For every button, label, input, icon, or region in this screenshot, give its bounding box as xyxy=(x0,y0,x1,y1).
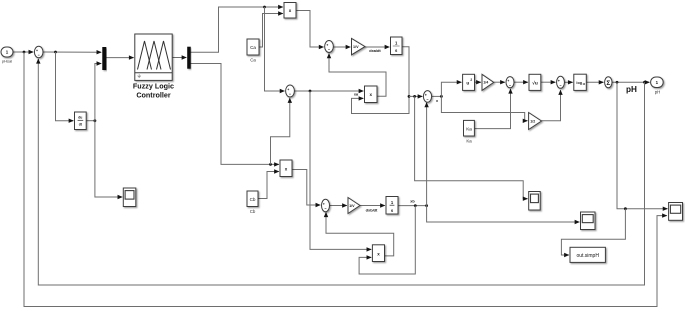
svg-text:Ka: Ka xyxy=(466,127,472,132)
svg-text:u: u xyxy=(466,81,469,86)
svg-text:du: du xyxy=(78,116,82,120)
svg-text:Σ: Σ xyxy=(606,80,610,87)
svg-text:2: 2 xyxy=(470,78,472,82)
svg-text:1/4: 1/4 xyxy=(483,81,488,85)
svg-text:Controller: Controller xyxy=(136,91,171,100)
svg-text:Ca: Ca xyxy=(250,45,256,50)
svg-text:1/2: 1/2 xyxy=(530,119,535,123)
svg-text:1/V: 1/V xyxy=(349,204,355,208)
svg-text:Cb: Cb xyxy=(250,209,256,214)
svg-text:Fuzzy Logic: Fuzzy Logic xyxy=(133,82,174,91)
svg-text:out.simpH: out.simpH xyxy=(576,253,599,259)
svg-text:xb: xb xyxy=(410,199,415,203)
svg-text:dxb/dt: dxb/dt xyxy=(366,207,378,212)
svg-text:dxa/dt: dxa/dt xyxy=(369,48,381,53)
svg-text:pHsal: pHsal xyxy=(2,59,12,64)
svg-text:log: log xyxy=(576,81,582,85)
svg-text:Cb: Cb xyxy=(250,197,256,202)
svg-text:Ka: Ka xyxy=(466,139,472,144)
svg-text:Ca: Ca xyxy=(250,58,256,63)
svg-text:√u: √u xyxy=(532,81,538,87)
svg-text:pH: pH xyxy=(626,85,637,94)
svg-text:1/V: 1/V xyxy=(353,45,359,49)
svg-text:pH: pH xyxy=(655,90,661,95)
